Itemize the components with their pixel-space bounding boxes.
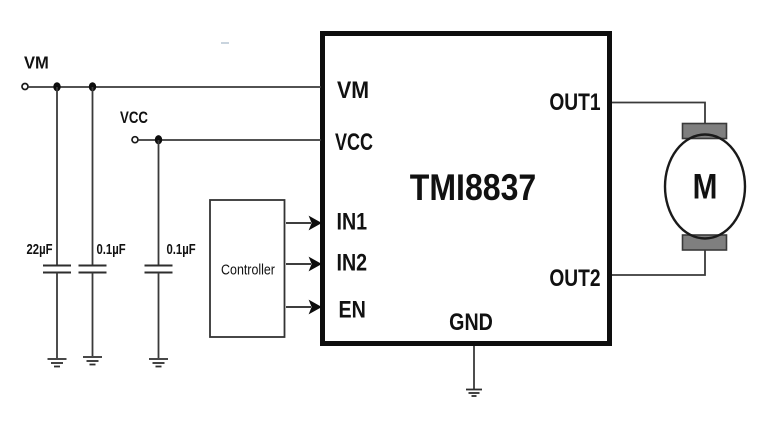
terminal VCC (open circle) <box>132 137 138 143</box>
faint artifact dash <box>221 42 229 44</box>
wire VCC node down to C3 <box>158 140 160 265</box>
ground symbol C1 <box>48 359 67 367</box>
svg-text:GND: GND <box>449 308 493 335</box>
motor M1 bottom brush <box>683 235 727 250</box>
wire controller to EN <box>286 306 311 308</box>
arrow head into IN2 <box>309 257 322 272</box>
svg-text:OUT1: OUT1 <box>549 88 600 116</box>
svg-text:0.1µF: 0.1µF <box>97 241 126 258</box>
wire C3 to ground <box>158 273 160 359</box>
svg-text:TMI8837: TMI8837 <box>410 167 536 209</box>
motor M1 top brush <box>683 124 727 139</box>
wire controller to IN2 <box>286 263 311 265</box>
wire VCC horizontal to U1 <box>138 139 321 141</box>
arrow head into EN <box>309 300 322 315</box>
controller block <box>210 200 285 337</box>
svg-text:IN2: IN2 <box>337 249 368 276</box>
wire VM node down to C1 <box>56 87 58 265</box>
capacitor C1 plates <box>43 266 71 273</box>
svg-text:EN: EN <box>339 296 366 323</box>
terminal VM (open circle) <box>22 84 28 90</box>
wire VM node down to C2 <box>92 87 94 265</box>
svg-text:22µF: 22µF <box>27 241 53 258</box>
junction dot VCC node at C3 <box>155 135 162 144</box>
svg-text:VM: VM <box>337 76 369 103</box>
wire C1 to ground <box>56 273 58 359</box>
capacitor C2 plates <box>79 266 107 273</box>
svg-text:VCC: VCC <box>335 130 373 156</box>
IC U1 TMI8837 body <box>323 34 610 344</box>
svg-text:Controller: Controller <box>221 261 275 277</box>
wire GND pin down <box>473 346 475 389</box>
svg-text:IN1: IN1 <box>337 208 368 235</box>
wire OUT1 to motor <box>612 103 705 125</box>
svg-text:0.1µF: 0.1µF <box>167 241 196 258</box>
wire VM horizontal to U1 <box>28 86 321 88</box>
ground symbol C3 <box>149 359 168 367</box>
junction dot VM node at C1 <box>53 82 60 91</box>
motor M1 body fill <box>665 135 745 239</box>
svg-text:OUT2: OUT2 <box>549 264 600 292</box>
motor M1 body outline <box>665 135 745 239</box>
junction dot VM node at C2 <box>89 82 96 91</box>
svg-text:M: M <box>693 167 718 206</box>
capacitor C3 plates <box>145 266 173 273</box>
wire OUT2 to motor <box>612 249 705 275</box>
ground symbol C2 <box>83 357 102 365</box>
wire C2 to ground <box>92 273 94 357</box>
arrow head into IN1 <box>309 216 322 231</box>
svg-text:VM: VM <box>24 52 49 73</box>
svg-text:VCC: VCC <box>120 109 148 128</box>
ground symbol GND <box>466 390 482 397</box>
wire controller to IN1 <box>286 222 311 224</box>
